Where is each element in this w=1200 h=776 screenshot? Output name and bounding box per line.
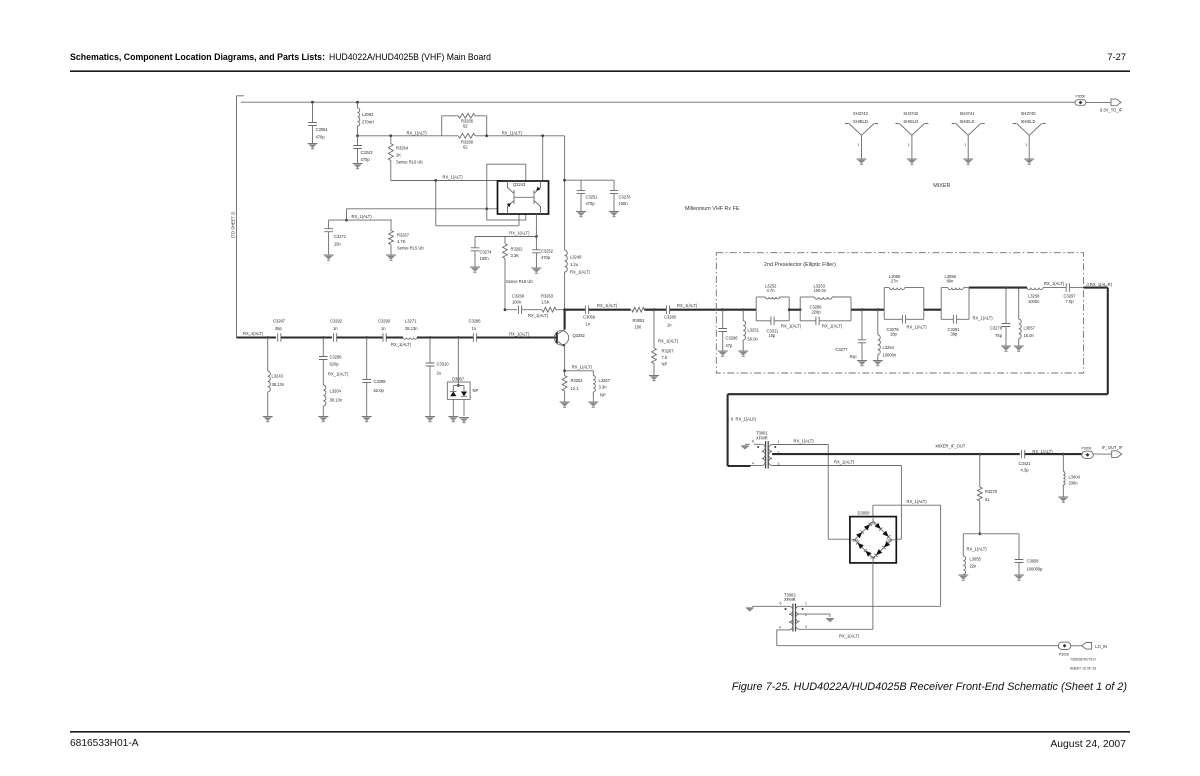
wire chain seg6 [477,336,557,338]
svg-text:6: 6 [780,602,782,606]
inductor L3264 [323,385,326,406]
ground (C3276) [609,211,619,213]
svg-text:100n: 100n [512,300,522,305]
capacitor C3268 [518,305,521,314]
wire base net [347,208,498,210]
wire T3001 pin4 stub [728,465,751,467]
ground (L3264) [318,416,328,418]
wire LC tank net [963,533,1019,535]
footer rule [70,731,1130,733]
wire T3001 pin3 [772,465,901,467]
svg-text:1.5K: 1.5K [541,300,550,305]
transistor Q3243 right half [533,190,535,204]
svg-text:SHIELD: SHIELD [960,119,975,124]
ground (L3057) [1014,345,1024,347]
wire sheet-continuation stub [237,95,245,97]
inductor L3243 [267,338,269,372]
svg-text:1: 1 [858,143,860,147]
svg-text:R3051: R3051 [633,318,646,323]
svg-text:LO_IN: LO_IN [1095,644,1107,649]
svg-text:RX_1(ALT): RX_1(ALT) [509,331,530,336]
svg-text:62: 62 [463,145,468,150]
tank L3056 + C3291 [940,288,942,320]
svg-text:100n: 100n [619,201,629,206]
svg-text:MIXER: MIXER [933,183,950,189]
svg-text:R3267: R3267 [397,233,410,238]
wire feedback bottom [436,225,519,227]
capacitor C3297 [1066,283,1069,292]
inductor L3258 [1027,288,1043,290]
wire Q3252 collector [564,310,566,330]
ground (C3251) [576,211,586,213]
svg-text:3.3n: 3.3n [599,385,608,390]
node L3243 [266,336,269,339]
wire pin3 down [900,466,902,540]
svg-text:RX_1(ALT): RX_1(ALT) [967,546,988,551]
svg-text:7.0p: 7.0p [1066,299,1075,304]
svg-text:1: 1 [805,602,807,606]
ground (D3067 a) [448,416,458,418]
svg-text:C3274: C3274 [480,249,493,254]
svg-text:220p: 220p [812,309,822,314]
svg-text:P3206: P3206 [1082,447,1092,451]
svg-text:L3271: L3271 [405,319,417,324]
svg-text:RX_1(ALT): RX_1(ALT) [443,174,464,179]
svg-text:100.0n: 100.0n [814,288,827,293]
svg-text:SH3742: SH3742 [903,111,919,116]
svg-text:1: 1 [1025,143,1027,147]
node Q3243 input [434,179,437,182]
svg-text:L3055: L3055 [970,557,982,562]
svg-text:P3026: P3026 [1059,653,1069,657]
svg-text:RX_1(ALT): RX_1(ALT) [907,325,928,330]
svg-text:C3298: C3298 [374,379,387,384]
wire Q3252 emitter [564,347,566,371]
node Q3252 collector [563,308,566,311]
inductor L3062 [356,101,359,104]
node Q3243 top feed [541,134,544,137]
svg-text:C3296: C3296 [726,336,739,341]
ground (L3254) [873,360,883,362]
resistor R3270 [979,454,981,487]
svg-text:101: 101 [870,556,876,560]
svg-text:XFMR: XFMR [784,597,796,602]
wire tank1-tank2 [789,309,800,311]
wire Q3243 base link [514,196,534,198]
svg-text:MIXER_IF_OUT: MIXER_IF_OUT [936,443,966,448]
svg-text:C3286: C3286 [469,319,482,324]
svg-text:L3251: L3251 [748,328,760,333]
ground (L3251) [738,350,748,352]
resistor R3268 [458,133,475,138]
capacitor C3058 [1018,534,1020,560]
svg-text:o RX_1(AL.R): o RX_1(AL.R) [1087,282,1113,287]
svg-text:Schematics, Component Location: Schematics, Component Location Diagrams,… [70,52,325,62]
wire tank2-tank3 [851,309,884,311]
connector P3050 [1075,100,1086,106]
svg-text:RX_1(ALT): RX_1(ALT) [973,315,994,320]
svg-text:SHIELD: SHIELD [903,119,918,124]
node L3057 [1017,286,1020,289]
wire T3002 pin1 [799,605,940,607]
node C3271 junction [345,219,348,222]
svg-text:L3254: L3254 [883,345,895,350]
svg-text:73D02876C79-O: 73D02876C79-O [1070,658,1096,662]
capacitor C3277 [861,310,863,340]
svg-text:620p: 620p [330,362,340,367]
svg-text:L3267: L3267 [599,378,611,383]
svg-text:C3297: C3297 [1064,294,1077,299]
ground (SH3742) [907,158,917,160]
node emitter [563,369,566,372]
wire chain seg3 [337,336,383,338]
svg-text:D3067: D3067 [452,376,465,381]
svg-text:R3264: R3264 [396,146,409,151]
wire pin1 down [827,445,829,540]
svg-text:100n: 100n [480,256,490,261]
connector LO_IN [1082,643,1092,650]
wire ring top up [872,505,874,516]
ground (SH3741) [963,158,973,160]
svg-text:100: 100 [635,325,643,330]
svg-text:L3057: L3057 [1024,326,1036,331]
svg-text:18p: 18p [890,332,898,337]
wire collector chain d [670,309,757,311]
capacitor C3274 [474,237,476,248]
wire LO path down [940,505,942,606]
svg-text:RX_1(ALT): RX_1(ALT) [1044,281,1065,286]
svg-text:R3270: R3270 [985,489,998,494]
svg-text:86n: 86n [947,279,955,284]
svg-text:470p: 470p [541,255,551,260]
ground (C3277) [857,360,867,362]
resistor R3266 [442,115,459,117]
wire Q3243 top feed [542,136,544,181]
ground (C3243) [353,163,363,165]
svg-text:10p: 10p [769,333,777,338]
Q3243 outer loop [487,164,526,220]
svg-text:R3263: R3263 [541,294,554,299]
ground (C3278) [1001,345,1011,347]
transformer T3002 core [792,604,794,632]
ground (C3296b) [718,350,728,352]
svg-text:NP: NP [662,362,668,367]
wire MIXER_IF_OUT [772,453,1020,455]
svg-text:NP: NP [600,393,606,398]
wire preselector exit [1069,287,1083,289]
node bias junction [356,134,359,137]
svg-text:D3058: D3058 [858,510,871,515]
transformer T3002 primary [789,606,793,630]
svg-text:2: 2 [805,613,807,617]
capacitor C3287 [278,333,281,342]
capacitor C3251 [580,180,582,190]
inductor L3254 [877,310,879,335]
capacitor C3271 [328,220,330,229]
ground (C3054) [308,143,318,145]
wire emitter net [565,370,594,372]
svg-text:SHEET 16 OF 23: SHEET 16 OF 23 [1070,667,1096,671]
capacitor C3296 (47p) [722,310,724,329]
svg-text:270nH: 270nH [362,120,374,125]
svg-text:RX_1(ALT): RX_1(ALT) [794,438,815,443]
wire left vertical bus [236,96,238,338]
capacitor C3054 [311,101,314,104]
mixer D3058 package [850,517,896,563]
wire to LO_IN arrow [1071,645,1082,647]
capacitor C3280 [666,305,669,314]
svg-text:L3264: L3264 [330,389,342,394]
wire RX to mixer vertical [1107,288,1109,395]
svg-text:15n: 15n [334,242,342,247]
resistor R3267 (7.5) [653,310,655,348]
svg-text:38.13n: 38.13n [272,382,285,387]
capacitor C3276 [613,180,615,190]
ground (R3267) [386,254,396,256]
svg-text:C3058: C3058 [1027,559,1040,564]
capacitor C3292 [334,333,337,342]
svg-text:100000p: 100000p [1027,567,1044,572]
svg-text:27n: 27n [891,279,899,284]
node R3270 bottom [978,532,981,535]
connector P3206 [1082,451,1093,458]
svg-text:470p: 470p [316,135,326,140]
node R3267b branch [653,308,656,311]
svg-text:SH3740: SH3740 [1021,111,1037,116]
wire base net drop [346,209,348,220]
svg-text:56.0n: 56.0n [748,337,759,342]
svg-text:RX_1(ALT): RX_1(ALT) [907,499,928,504]
wire IF out seg [1025,453,1082,455]
node D3067 branch [457,336,460,339]
resistor R3263 [542,307,556,312]
wire top 9.3V rail [241,101,1075,103]
svg-text:NP: NP [473,388,479,393]
wire feedback down [435,181,437,226]
svg-text:RX_1(ALT): RX_1(ALT) [781,323,802,328]
svg-text:C3421: C3421 [1019,461,1032,466]
wire decoupling branch [565,179,614,181]
wire collector chain c [644,309,666,311]
wire P3050 to arrow [1086,101,1111,103]
svg-text:XFMR: XFMR [756,435,768,440]
inductor L3249 [565,250,568,272]
ground (C3310) [425,416,435,418]
svg-text:2u: 2u [437,371,442,376]
capacitor C3286 [473,333,476,342]
inductor L3404 [1062,454,1064,471]
svg-text:1: 1 [964,143,966,147]
svg-text:RX_1(ALT): RX_1(ALT) [352,214,373,219]
svg-text:1n: 1n [586,322,591,327]
svg-text:39p: 39p [951,332,959,337]
svg-text:103: 103 [886,539,892,543]
svg-text:C3292: C3292 [330,319,343,324]
node C3298 shunt [365,336,368,339]
wire tank4 exit top [969,287,1027,289]
svg-text:L3243: L3243 [272,374,284,379]
svg-text:L3249: L3249 [570,255,582,260]
wire ring bottom down [872,563,874,629]
svg-text:SHIELD: SHIELD [853,119,868,124]
svg-text:RX_1(ALT): RX_1(ALT) [328,372,349,377]
wire collector chain a [565,309,586,311]
inductor L3055 (22n) [962,534,964,556]
svg-text:75p: 75p [995,333,1003,338]
resistor R3267 [390,220,392,230]
svg-text:RX_1(ALT): RX_1(ALT) [570,270,591,275]
svg-text:7.5: 7.5 [662,355,668,360]
svg-text:Sense RL0 Ub: Sense RL0 Ub [396,160,423,165]
wire RX input chain [237,336,277,338]
2nd preselector dashed box [716,253,1083,373]
inductor L3057 [1018,288,1020,319]
capacitor C3298 [366,338,368,380]
ground (T3002 pin2) [826,619,834,622]
svg-text:38.13n: 38.13n [330,398,343,403]
svg-text:2nd Preselector (Elliptic Filt: 2nd Preselector (Elliptic Filter) [764,262,836,268]
wire to IF_OUT arrow [1093,453,1112,455]
svg-text:62: 62 [463,124,468,129]
capacitor C3243 [357,136,359,146]
svg-text:RX_1(ALT): RX_1(ALT) [509,230,530,235]
svg-text:1: 1 [908,143,910,147]
svg-text:6: 6 [752,440,754,444]
wire L3249 branch down [564,136,566,250]
svg-text:RX_1(ALT): RX_1(ALT) [839,634,860,639]
svg-text:C3280: C3280 [664,315,677,320]
node emitter bias [535,235,538,238]
svg-text:L3404: L3404 [1069,475,1081,480]
svg-text:38.13n: 38.13n [405,326,418,331]
svg-text:4: 4 [779,626,781,630]
wire RX to mixer horizontal [728,393,1108,395]
diode D3067 package [447,382,470,399]
svg-text:3.3K: 3.3K [511,253,520,258]
ground (C3298) [362,416,372,418]
svg-text:1n: 1n [333,326,338,331]
wire T3001 pin1 [772,444,828,446]
capacitor C3310 [429,338,431,364]
transformer T3001 secondary [769,444,773,465]
svg-text:15.0n: 15.0n [1024,333,1035,338]
wire tank3-tank4 [924,309,941,311]
resistor R3252 [564,371,566,376]
node C3277 [861,308,864,311]
tank L3252 + C3311 [755,297,757,321]
svg-text:Q3252: Q3252 [573,333,586,338]
inductor L3251 [742,310,744,321]
capacitor C3421 [1022,450,1025,459]
wire C3271/R3267 net [329,219,392,221]
svg-text:SHIELD: SHIELD [1021,119,1036,124]
svg-text:4.7K: 4.7K [397,239,406,244]
wire pin3 to ring right [896,538,901,540]
svg-text:10000n: 10000n [883,353,897,358]
connector 9.3V_TO_IF [1111,99,1121,106]
wire emitter bias net [475,236,536,238]
wire emitter stub [518,214,520,226]
transistor Q3252 [554,331,568,345]
dual transistor Q3243 package box [498,181,549,214]
capacitor C3069 [585,305,588,314]
svg-text:6 RX_1(AL0): 6 RX_1(AL0) [731,417,756,422]
ground (L3055) [958,574,968,576]
ground (T3002 pin6) [746,608,754,611]
svg-text:Sense RL5 Ub: Sense RL5 Ub [397,246,424,251]
node R3270 [978,453,981,456]
inductor L3271 [403,338,417,340]
resistor R3264 [389,134,392,137]
svg-text:RX_1(ALT): RX_1(ALT) [502,130,523,135]
ground (R3252) [560,401,570,403]
header rule [70,70,1130,72]
wire T3002 pin3 [799,628,873,630]
tank L3253 + C3286 [799,297,801,321]
svg-text:22n: 22n [970,564,978,569]
svg-text:IF_OUT_IF: IF_OUT_IF [1102,445,1123,450]
transistor Q3243 left half [513,190,515,204]
ground (R3267b) [649,375,659,377]
svg-text:36p: 36p [275,326,283,331]
svg-text:102: 102 [870,522,876,526]
svg-text:R3262: R3262 [511,247,524,252]
inductor L3267 [592,371,594,376]
svg-text:August 24, 2007: August 24, 2007 [1050,739,1126,750]
wire R3264 to Q3243 box [391,180,503,182]
svg-text:1n: 1n [472,326,477,331]
svg-text:1n: 1n [381,326,386,331]
transformer T3001 primary [762,444,766,465]
transformer T3001 core [765,441,767,469]
svg-text:1: 1 [778,440,780,444]
svg-text:C3054: C3054 [316,127,329,132]
svg-text:47p: 47p [726,343,734,348]
svg-text:RX_1(ALT): RX_1(ALT) [528,313,549,318]
wire T3002 pin6 to ground [752,605,782,607]
ground (C3274) [470,266,480,268]
svg-text:7-27: 7-27 [1107,52,1126,62]
svg-text:L3258: L3258 [1028,294,1040,299]
svg-text:RX_1(ALT): RX_1(ALT) [243,331,264,336]
svg-text:470p: 470p [586,201,596,206]
svg-text:C3277: C3277 [835,347,848,352]
node R3262 bottom [504,308,507,311]
connector IF_OUT_IF [1112,451,1122,458]
svg-text:RX_1(ALT): RX_1(ALT) [407,130,428,135]
svg-text:P3050: P3050 [1076,95,1086,99]
transformer T3002 secondary [795,606,799,629]
ground (T3001 pin6) [745,443,750,445]
svg-text:91p: 91p [850,354,858,359]
svg-text:RX_1(ALT): RX_1(ALT) [391,342,412,347]
capacitor C3290 [383,333,386,342]
svg-text:1K: 1K [396,153,401,158]
svg-text:62.0p: 62.0p [374,388,385,393]
tank L3055 + C3279 [883,288,885,320]
svg-text:Sense RL5 Ub: Sense RL5 Ub [506,279,533,284]
svg-text:C3287: C3287 [273,319,286,324]
node decoupling branch [563,179,566,182]
svg-text:R3267: R3267 [662,349,675,354]
svg-text:(TO SHEET 2): (TO SHEET 2) [231,211,236,238]
wire T3002 pin2 [799,613,830,615]
svg-text:51: 51 [985,497,990,502]
svg-text:C3310: C3310 [437,362,450,367]
resistor R3262 [504,237,506,244]
svg-text:C3278: C3278 [990,326,1003,331]
ground (C3058) [1014,574,1024,576]
